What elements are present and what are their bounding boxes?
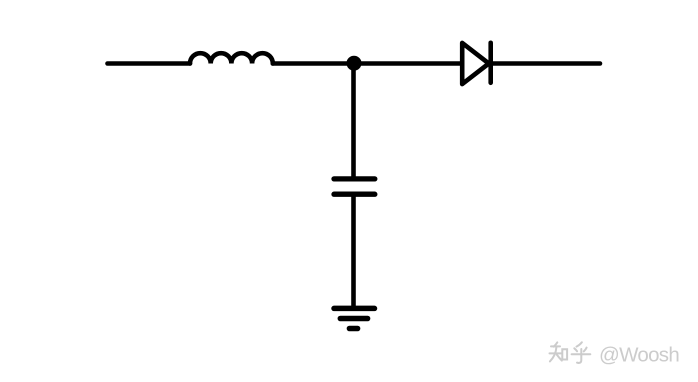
- wire: diode cathode to output lead: [491, 61, 600, 66]
- inductor L1: [190, 53, 273, 63]
- wire: inductor to junction node: [273, 61, 354, 66]
- watermark: 知乎 glyphs drawn as paths: [550, 342, 591, 363]
- node: junction of inductor, diode and capacitor: [349, 58, 359, 68]
- wire: junction node to diode anode: [354, 61, 462, 66]
- diode D1: [462, 43, 491, 84]
- 知 right box: [562, 349, 567, 359]
- ground: [334, 308, 375, 328]
- svg-text:@Woosh: @Woosh: [599, 344, 679, 367]
- wire: junction node down to capacitor: [351, 64, 356, 179]
- wire: capacitor to ground: [351, 194, 356, 308]
- 知 left radical: [554, 342, 558, 346]
- 乎 strokes: [577, 342, 582, 346]
- wire: input lead left of inductor: [108, 61, 191, 66]
- capacitor C1: [334, 179, 375, 194]
